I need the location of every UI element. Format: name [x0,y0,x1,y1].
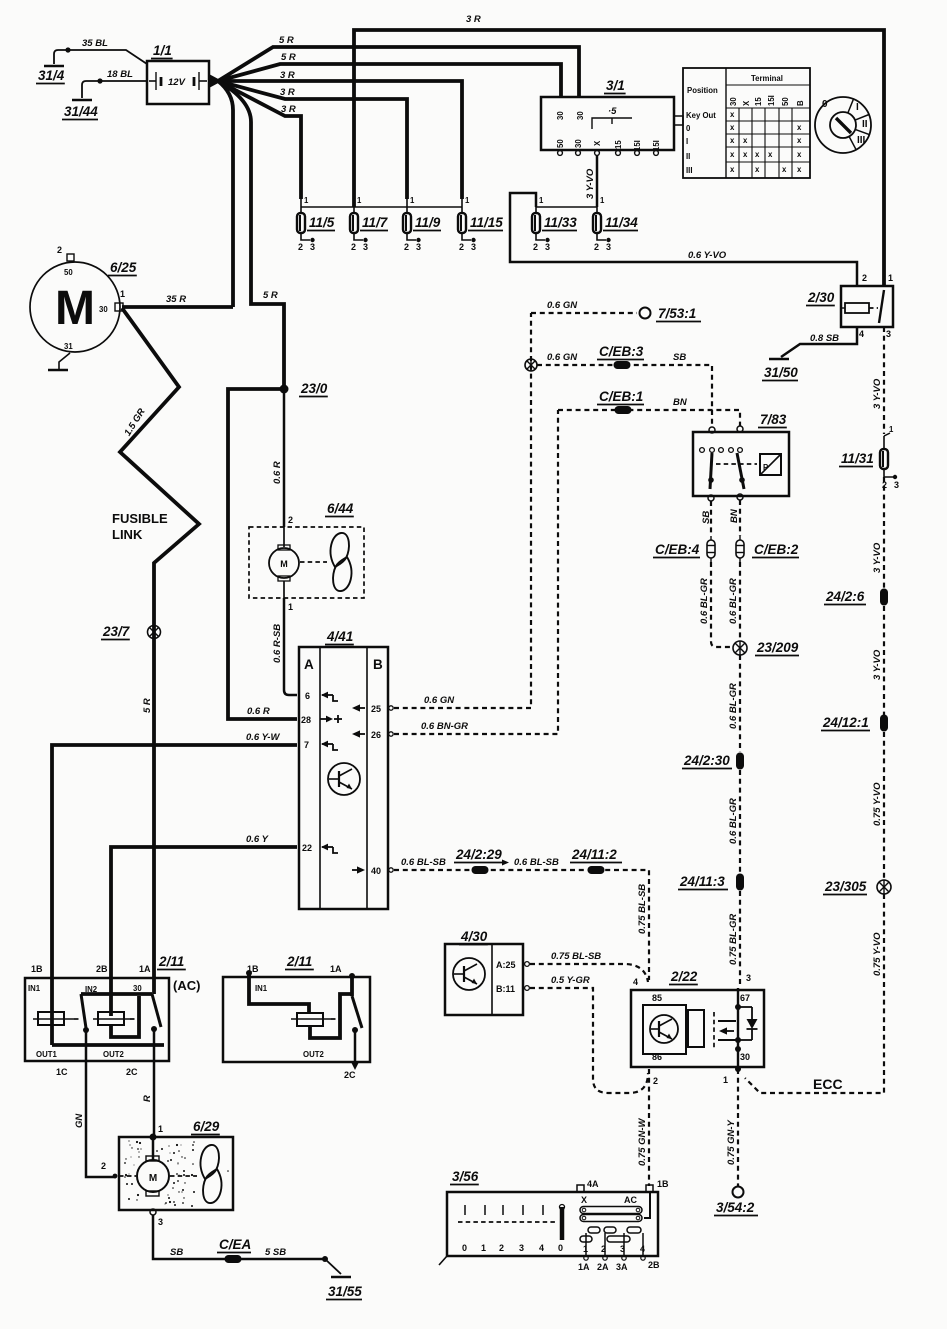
svg-text:7/53:1: 7/53:1 [658,306,696,321]
svg-text:5 R: 5 R [279,35,294,46]
svg-text:2C: 2C [126,1067,138,1077]
svg-text:6/29: 6/29 [193,1119,220,1134]
svg-text:2A: 2A [597,1262,609,1272]
svg-text:2: 2 [459,242,464,252]
svg-text:3/1: 3/1 [606,78,625,93]
pin 4A [577,1185,584,1192]
svg-text:30: 30 [133,984,142,993]
svg-text:24/11:2: 24/11:2 [571,847,617,862]
internal bus 30 [81,992,152,996]
svg-text:x: x [743,136,748,145]
svg-text:0: 0 [558,1243,563,1253]
svg-text:3: 3 [746,973,751,983]
wire 0.5 Y-GR (4/30 B:11 to 2/22 pin 2) [530,988,648,1093]
svg-text:0.75 GN-W: 0.75 GN-W [637,1117,648,1166]
svg-text:2: 2 [57,245,62,255]
svg-text:4: 4 [859,329,864,339]
svg-text:0.6 GN: 0.6 GN [424,695,455,706]
svg-text:X: X [581,1195,587,1205]
svg-text:0.6 Y-W: 0.6 Y-W [246,732,280,743]
relay coil of 2/22 [688,1010,704,1047]
svg-text:x: x [797,165,802,174]
svg-text:Position: Position [687,86,718,95]
wire R (2C to 6/29 pin 1) [153,1029,156,1136]
relay contact of 2/22 [718,1020,736,1022]
wire 3 Y-VO (X terminal to fuse 11/34) [596,155,599,207]
svg-text:1: 1 [120,289,125,299]
svg-text:40: 40 [371,866,381,876]
svg-text:0.6 GN: 0.6 GN [547,300,578,311]
svg-text:11/7: 11/7 [362,215,389,230]
fuse 11/7 [353,199,355,214]
svg-text:23/7: 23/7 [102,624,131,639]
wire 3 R (to fuse 11/15) [218,81,462,199]
svg-text:3 R: 3 R [466,14,481,25]
svg-text:3 Y-VO: 3 Y-VO [585,168,596,199]
svg-text:2/11: 2/11 [158,954,184,969]
svg-text:SB: SB [673,352,686,363]
svg-text:2B: 2B [648,1260,660,1270]
svg-text:2/22: 2/22 [670,969,698,984]
svg-text:31/44: 31/44 [64,104,98,119]
svg-text:II: II [862,119,868,130]
motor 6/25 [30,262,120,352]
switch blades [710,453,712,489]
fuse 11/34 [596,199,598,214]
pin 6 arrow [322,694,333,696]
svg-text:31/4: 31/4 [38,68,65,83]
1A blade [349,973,355,979]
svg-text:0.6 BL-GR: 0.6 BL-GR [699,578,710,624]
svg-text:1: 1 [288,602,293,612]
wire 0.6 R (23/0 down to 6/44) [283,393,286,527]
wire to motor 35 R riser [218,81,233,307]
wire 0.6 Y (4/41 pin 22 to 2/11 2B) [111,847,297,1016]
svg-text:x: x [730,136,735,145]
svg-text:30: 30 [556,111,565,120]
svg-text:Terminal: Terminal [751,74,783,83]
svg-text:3: 3 [545,242,550,252]
wire BN via C/EB:1 to 7/83 [558,410,740,426]
svg-text:P: P [763,463,768,472]
svg-text:0.6 BL-GR: 0.6 BL-GR [728,798,739,844]
svg-text:2: 2 [288,515,293,525]
svg-text:ECC: ECC [813,1076,843,1092]
svg-text:FUSIBLE: FUSIBLE [112,511,168,526]
svg-text:31/55: 31/55 [328,1284,362,1299]
motor M of 6/44 [283,527,285,547]
svg-text:x: x [730,110,735,119]
svg-text:3: 3 [158,1217,163,1227]
svg-text:1A: 1A [139,964,151,974]
wire 18 BL [97,78,102,83]
svg-text:x: x [755,165,760,174]
svg-text:3 R: 3 R [281,104,296,115]
svg-text:LINK: LINK [112,527,143,542]
svg-text:4: 4 [633,977,638,987]
wire 0.75 GN-Y (2/22 pin 1 to 3/54:2) [737,1069,739,1186]
svg-text:23/305: 23/305 [824,879,867,894]
splice 23/7 [148,626,161,639]
blade 2 [152,994,161,1027]
pin 26 arrow [354,733,365,735]
svg-text:AC: AC [624,1195,637,1205]
svg-text:3: 3 [894,480,899,490]
svg-text:7: 7 [304,740,309,750]
svg-text:2C: 2C [344,1070,356,1080]
wire 0.6 GN / SB via C/EB:3 to 7/83 [537,365,712,427]
svg-text:B: B [796,100,805,106]
fuse top bus [301,206,462,208]
svg-text:0.6 R: 0.6 R [272,461,283,484]
svg-text:x: x [797,136,802,145]
svg-text:X: X [742,100,751,106]
svg-text:0.75 GN-Y: 0.75 GN-Y [726,1118,737,1165]
svg-text:x: x [797,150,802,159]
svg-text:24/11:3: 24/11:3 [679,874,725,889]
svg-text:B: B [373,657,383,672]
svg-text:30: 30 [729,97,738,106]
ground 31/4 [54,50,68,64]
svg-text:2: 2 [862,273,867,283]
fuse 11/9 [406,199,408,214]
coil 2 of 2/11 [98,1012,124,1025]
svg-text:0.6 BL-GR: 0.6 BL-GR [728,578,739,624]
svg-text:x: x [730,123,735,132]
svg-text:15: 15 [754,97,763,106]
svg-text:4: 4 [640,1244,645,1254]
svg-text:A:25: A:25 [496,960,516,970]
wire 0.6 BL-SB (pin 40 to 2/22 pin 4) [389,868,393,872]
svg-text:IN1: IN1 [28,984,41,993]
wire 0.6 R-SB (6/44 to 4/41 pin 6) [284,598,297,695]
svg-text:50: 50 [64,268,73,277]
svg-text:3 Y-VO: 3 Y-VO [872,649,883,680]
svg-text:x: x [730,150,735,159]
svg-text:4/30: 4/30 [460,929,488,944]
svg-text:x: x [797,123,802,132]
wire 35 BL [65,47,70,52]
svg-text:3/54:2: 3/54:2 [716,1200,755,1215]
svg-text:30: 30 [740,1052,750,1062]
svg-text:3 R: 3 R [280,87,295,98]
wire 3 R (to fuse 11/9) [218,81,407,199]
svg-text:0.75 Y-VO: 0.75 Y-VO [872,932,883,976]
svg-text:1: 1 [465,196,470,205]
svg-text:6/44: 6/44 [327,501,354,516]
svg-text:0.6 BL-SB: 0.6 BL-SB [401,857,446,868]
svg-text:0: 0 [686,124,691,133]
svg-text:0.5 Y-GR: 0.5 Y-GR [551,975,590,986]
fuse 11/5 [300,199,302,214]
svg-text:30: 30 [574,139,583,148]
svg-text:28: 28 [301,715,311,725]
svg-text:0: 0 [822,99,828,110]
wire 0.75 BL-SB (4/30 A:25 to 2/22 pin 4) [530,964,648,982]
svg-text:0.75 BL-SB: 0.75 BL-SB [551,951,601,962]
splice 23/209 [733,641,747,655]
svg-text:0.6 Y-VO: 0.6 Y-VO [688,250,727,261]
wire 3 R (top feed to 2/30 and fuse 11/7) [354,30,884,286]
svg-text:5 R: 5 R [263,290,278,301]
svg-text:1: 1 [583,1244,588,1254]
svg-text:67: 67 [740,993,750,1003]
blade 1 [81,994,86,1028]
wire 0.75 GN-W (2/22 pin 2 to 3/56 1B) [648,1069,650,1186]
svg-text:11/5: 11/5 [309,215,335,230]
svg-text:24/12:1: 24/12:1 [822,715,869,730]
wire 3 R (to fuse 11/5) [218,81,301,199]
ground of 6/25 [59,353,70,369]
svg-text:35 R: 35 R [166,294,186,305]
svg-text:0.6 GN: 0.6 GN [547,352,578,363]
svg-text:A: A [304,657,314,672]
svg-text:1A: 1A [578,1262,590,1272]
wire 5 R (to node 23/0) [218,81,284,389]
svg-text:7/83: 7/83 [760,412,787,427]
fan blade of 6/44 [331,533,349,567]
wire 5 R (to 3/1 pin 30 left) [218,64,561,97]
pin 7 arrow [322,743,333,745]
wire 0.8 SB to ground 31/50 [781,327,857,357]
output bus [52,1043,164,1047]
svg-text:0.75 BL-SB: 0.75 BL-SB [637,884,648,934]
svg-text:3: 3 [620,1244,625,1254]
motor M of 6/29 [137,1160,169,1192]
svg-text:BN: BN [673,397,688,408]
svg-text:11/31: 11/31 [841,451,874,466]
svg-text:x: x [730,165,735,174]
pin 40 arrow [352,869,361,871]
svg-text:III: III [686,166,693,175]
svg-text:11/33: 11/33 [544,215,577,230]
pin 22 arrow [322,846,333,848]
ground 31/50 [769,358,789,361]
svg-text:5 R: 5 R [281,52,296,63]
svg-text:23/209: 23/209 [756,640,799,655]
svg-text:I: I [856,102,859,113]
svg-text:1/1: 1/1 [153,43,172,58]
svg-text:3A: 3A [616,1262,628,1272]
svg-text:M: M [149,1173,157,1184]
svg-text:0: 0 [462,1243,467,1253]
svg-text:1: 1 [481,1243,486,1253]
svg-text:85: 85 [652,993,662,1003]
svg-text:3: 3 [886,329,891,339]
svg-text:C/EB:4: C/EB:4 [655,542,700,557]
svg-text:BN: BN [729,508,740,523]
svg-text:25: 25 [371,704,381,714]
svg-text:0.6 Y: 0.6 Y [246,834,270,845]
svg-text:35 BL: 35 BL [82,38,108,49]
svg-text:2: 2 [533,242,538,252]
wire 0.6 BN-GR (pin 26 to C/EB:1) [389,732,393,736]
svg-text:1: 1 [723,1075,728,1085]
svg-text:24/2:6: 24/2:6 [825,589,865,604]
svg-text:0.6 BL-GR: 0.6 BL-GR [728,683,739,729]
svg-text:0.8 SB: 0.8 SB [810,333,839,344]
svg-text:1: 1 [410,196,415,205]
svg-text:C/EB:3: C/EB:3 [599,344,644,359]
svg-text:C/EB:2: C/EB:2 [754,542,799,557]
wire 0.6 GN (pin 25 to splice / 7/53:1) [389,706,393,710]
svg-text:3: 3 [416,242,421,252]
svg-text:2: 2 [351,242,356,252]
svg-text:1: 1 [889,425,894,434]
svg-text:2: 2 [594,242,599,252]
svg-text:I: I [686,137,688,146]
svg-text:M: M [280,559,288,569]
svg-text:26: 26 [371,730,381,740]
splice on GN wire [525,359,537,371]
svg-text:IN1: IN1 [255,984,268,993]
svg-text:31: 31 [64,342,73,351]
svg-text:30: 30 [576,111,585,120]
svg-text:3: 3 [471,242,476,252]
svg-text:2/11: 2/11 [286,954,312,969]
svg-text:3/56: 3/56 [452,1169,479,1184]
wire 0.6 R (23/0 to 4/41 pin 28) [228,389,297,719]
svg-text:4: 4 [539,1243,544,1253]
svg-text:x: x [782,165,787,174]
fuse 11/31 [884,433,890,436]
svg-text:x: x [755,150,760,159]
svg-text:11/15: 11/15 [470,215,503,230]
svg-text:B:11: B:11 [496,984,515,994]
svg-text:R: R [142,1095,153,1102]
fusible link wire 1.5 GR [120,308,199,994]
svg-text:2B: 2B [96,964,108,974]
svg-text:3 Y-VO: 3 Y-VO [872,542,883,573]
coil 2 link [111,996,139,1037]
svg-text:3 Y-VO: 3 Y-VO [872,378,883,409]
svg-text:3 R: 3 R [280,70,295,81]
svg-text:1B: 1B [31,964,43,974]
pin 28 arrow [320,718,329,720]
svg-text:OUT2: OUT2 [103,1050,124,1059]
svg-text:5 SB: 5 SB [265,1247,286,1258]
svg-text:24/2:30: 24/2:30 [683,753,730,768]
svg-text:OUT2: OUT2 [303,1050,324,1059]
svg-text:0.6 BN-GR: 0.6 BN-GR [421,721,468,732]
svg-text:1: 1 [158,1124,163,1134]
svg-text:15I: 15I [633,140,642,151]
coil of 2/11 (second) [297,1013,323,1026]
wire GN (1C to 6/29 pin 2) [86,1030,116,1177]
svg-text:OUT1: OUT1 [36,1050,57,1059]
svg-text:2/30: 2/30 [807,290,835,305]
svg-text:1: 1 [539,196,544,205]
svg-text:22: 22 [302,843,312,853]
svg-text:1C: 1C [56,1067,68,1077]
ignition key symbol [815,97,871,153]
svg-text:3: 3 [519,1243,524,1253]
svg-text:1: 1 [357,196,362,205]
coil 1 of 2/11 [38,1012,64,1025]
svg-text:2: 2 [404,242,409,252]
illumination symbol [716,463,757,465]
svg-text:·5: ·5 [608,106,617,117]
fuse 11/33 [535,199,537,214]
svg-text:C/EA: C/EA [219,1237,251,1252]
svg-text:3: 3 [363,242,368,252]
svg-text:31/50: 31/50 [764,365,798,380]
svg-text:1: 1 [600,196,605,205]
connector 3/54:2 [733,1187,744,1198]
svg-text:2: 2 [499,1243,504,1253]
svg-text:1: 1 [888,273,893,283]
svg-text:1B: 1B [657,1179,669,1189]
pin 1B [646,1185,653,1192]
svg-text:x: x [768,150,773,159]
svg-text:x: x [743,150,748,159]
svg-text:11/9: 11/9 [415,215,441,230]
transistor of 2/22 [643,1005,686,1054]
wire 0.6 BL-GR (23/209 down) [739,655,741,752]
svg-text:15I: 15I [652,140,661,151]
svg-text:0.6 R-SB: 0.6 R-SB [272,624,283,663]
svg-text:50: 50 [781,97,790,106]
svg-text:(AC): (AC) [173,978,200,993]
svg-text:SB: SB [170,1247,183,1258]
ignition position table [683,68,810,178]
svg-text:3: 3 [606,242,611,252]
node 23/0 [280,385,289,394]
pin 25 arrow [354,707,365,709]
svg-text:III: III [857,135,866,146]
svg-text:C/EB:1: C/EB:1 [599,389,643,404]
svg-text:18 BL: 18 BL [107,69,133,80]
svg-text:Key Out: Key Out [686,111,716,120]
svg-text:3: 3 [310,242,315,252]
fan blade of 6/29 [201,1145,219,1179]
svg-text:0.6 BL-SB: 0.6 BL-SB [514,857,559,868]
svg-text:2: 2 [101,1161,106,1171]
svg-text:GN: GN [74,1113,85,1128]
svg-text:2: 2 [601,1244,606,1254]
wire 35 R [122,305,233,309]
wire 0.6 GN to 7/53:1 [531,312,637,314]
svg-text:2: 2 [298,242,303,252]
ground 31/44 [82,81,100,98]
wire SB / 5 SB to ground 31/55 [153,1215,325,1259]
svg-text:5 R: 5 R [142,698,153,713]
transistor symbol of 4/41 [328,763,360,795]
svg-text:1A: 1A [330,964,342,974]
svg-text:15I: 15I [767,95,776,106]
svg-text:15: 15 [614,140,623,149]
svg-text:II: II [686,152,690,161]
svg-text:50: 50 [556,139,565,148]
wire 0.6 Y-VO (fuse 11/33 to 2/30 pin 2) [510,193,857,286]
svg-text:4/41: 4/41 [326,629,353,644]
svg-text:X: X [593,140,602,146]
fan speed scale [464,1205,466,1215]
svg-text:4A: 4A [587,1179,599,1189]
svg-text:6: 6 [305,691,310,701]
svg-text:6/25: 6/25 [110,260,137,275]
svg-text:24/2:29: 24/2:29 [455,847,502,862]
svg-text:0.75 BL-GR: 0.75 BL-GR [728,914,739,965]
svg-text:12V: 12V [168,77,186,88]
svg-text:11/34: 11/34 [605,215,638,230]
svg-text:0.6 R: 0.6 R [247,706,270,717]
wire 0.6 Y-W (4/41 pin 7 to 2/11 1B) [52,745,297,1045]
svg-text:M: M [55,282,95,335]
wire 2C stub [354,1030,357,1062]
wire 5 R (to 3/1 pin 30 right) [218,47,579,97]
svg-text:23/0: 23/0 [300,381,328,396]
